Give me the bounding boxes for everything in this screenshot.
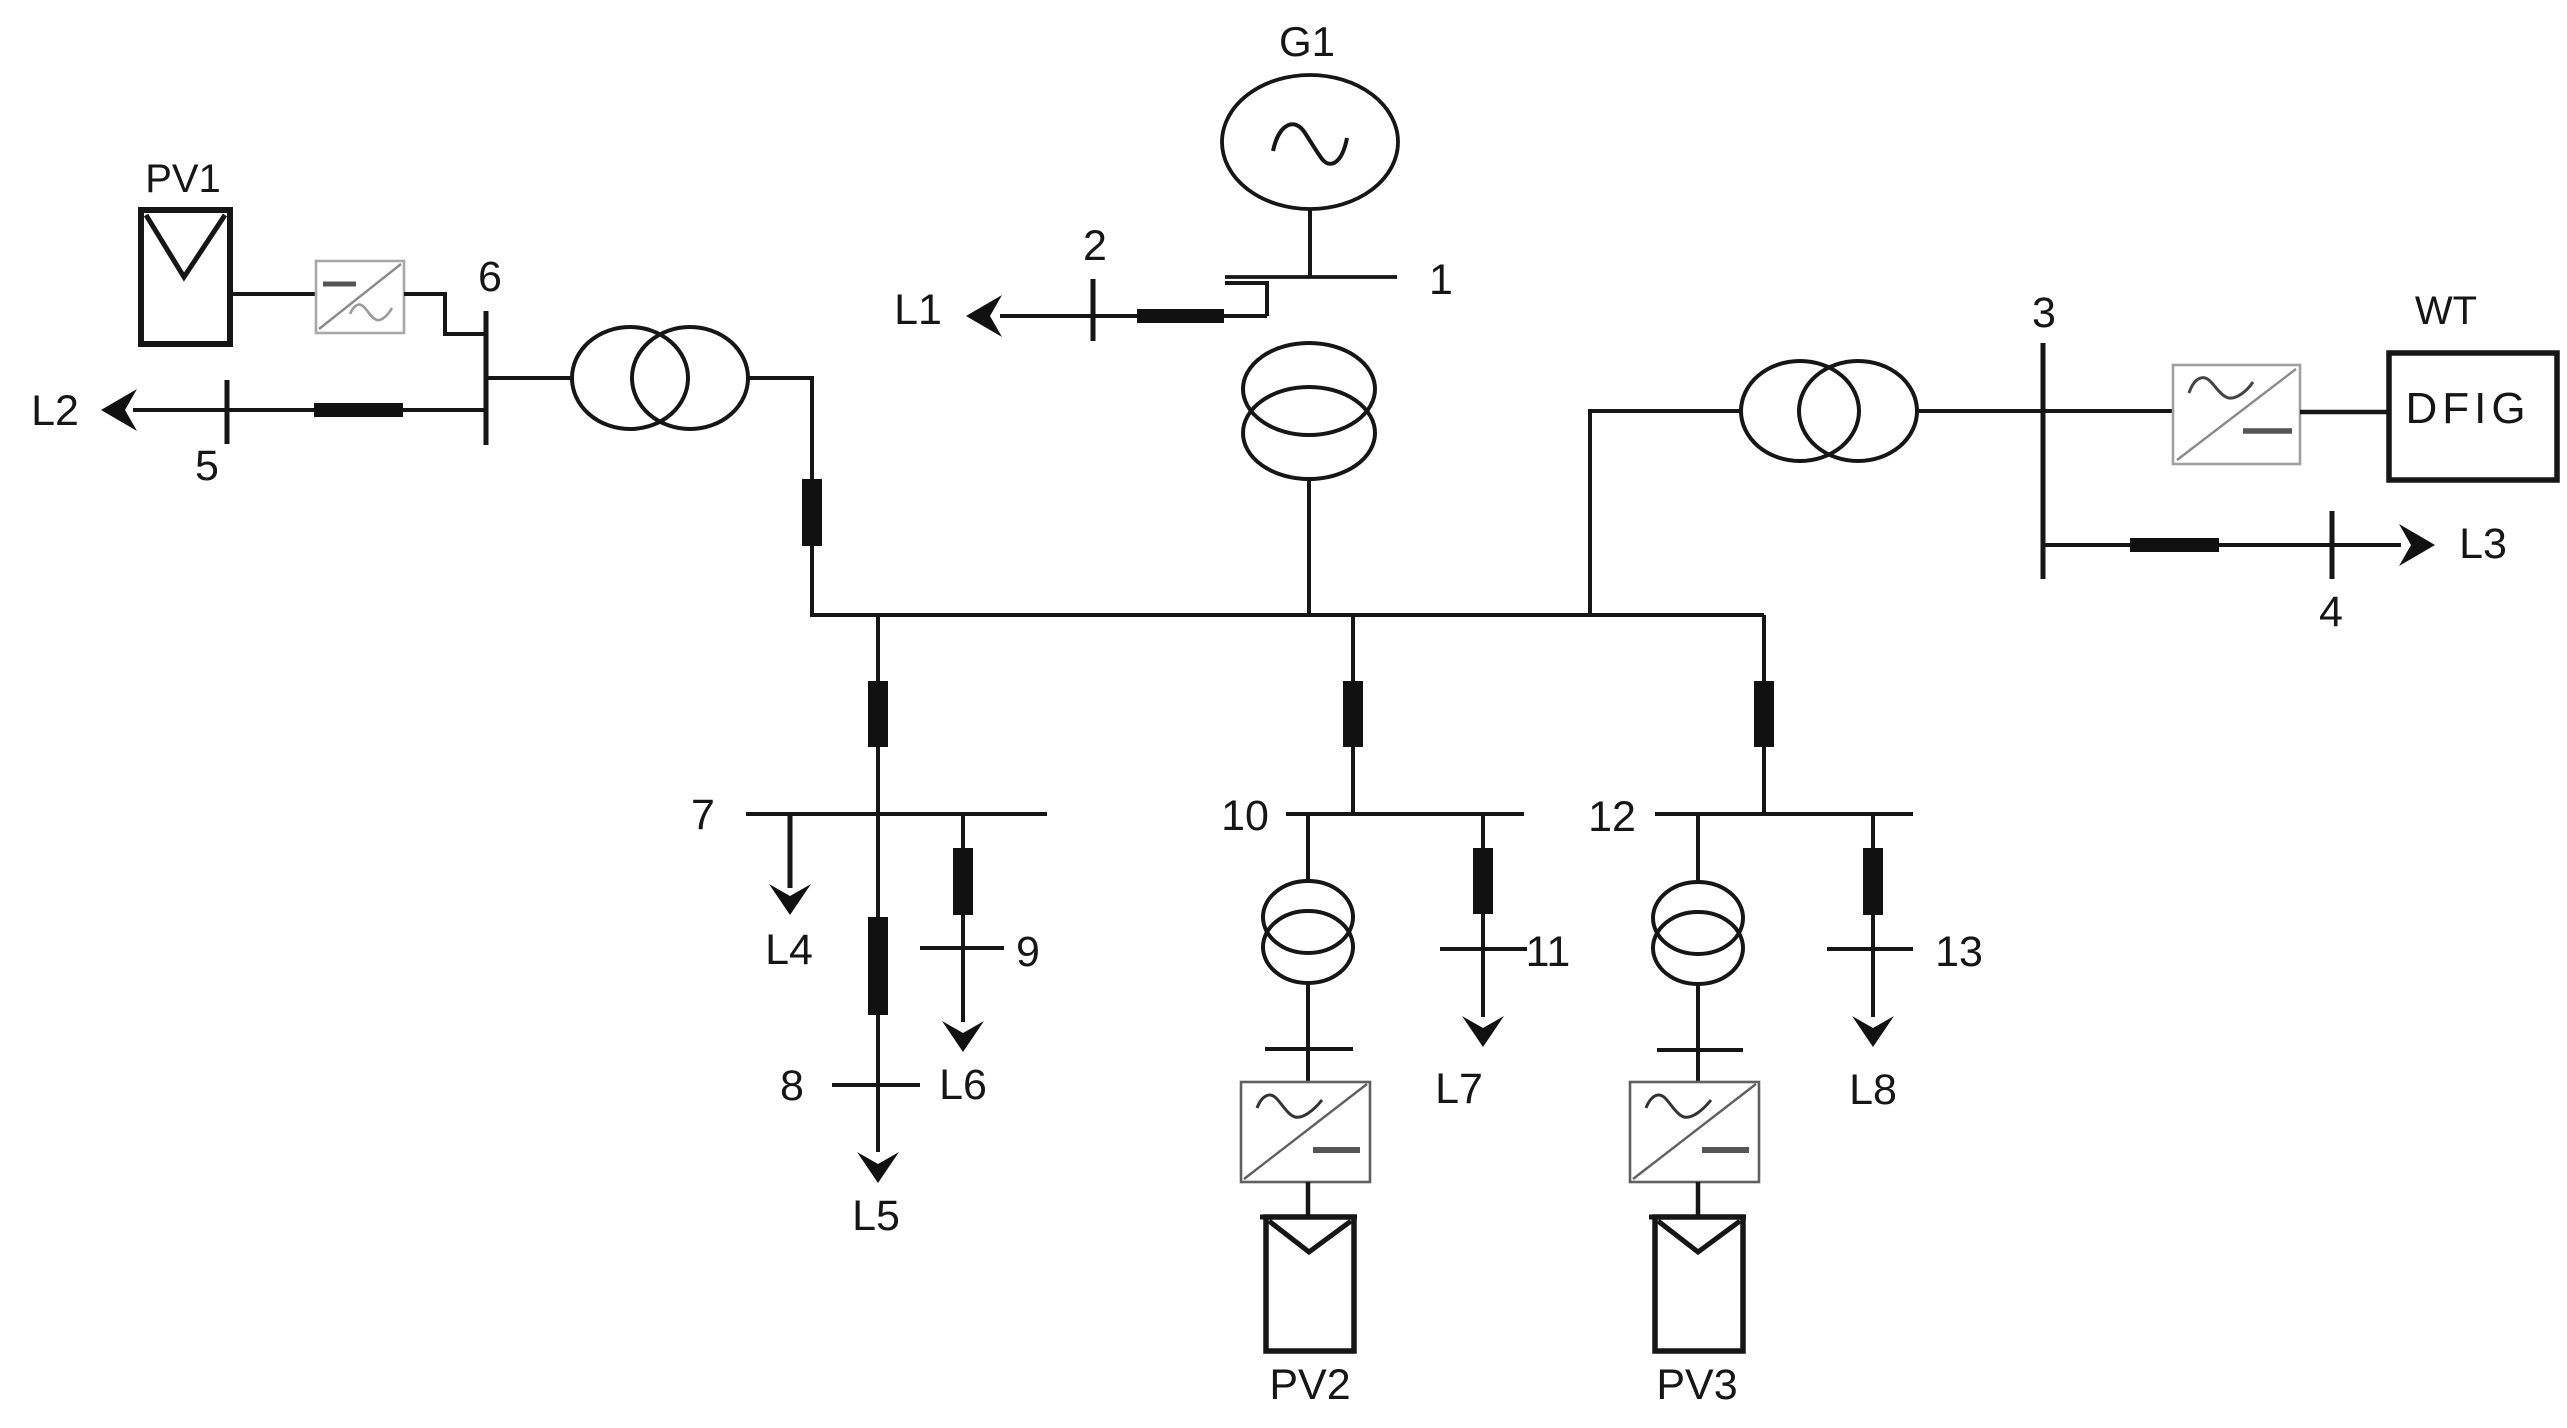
- line impedance on L1 feeder: [1137, 309, 1224, 323]
- transformer T2: [572, 327, 748, 429]
- load arrow L6: [942, 1021, 984, 1052]
- wire bus 7 to bus 9: [961, 814, 965, 1022]
- line impedance bus12 branch: [1754, 681, 1774, 747]
- svg-text:DFIG: DFIG: [2405, 384, 2530, 433]
- svg-text:7: 7: [691, 791, 715, 839]
- svg-text:L3: L3: [2459, 520, 2507, 568]
- svg-text:2: 2: [1083, 222, 1107, 270]
- svg-text:4: 4: [2319, 588, 2343, 636]
- wire PV1 to converter: [230, 292, 316, 296]
- wire L1 feeder: [1000, 314, 1267, 318]
- bus 12: [1655, 812, 1913, 816]
- wire T4 to converter PV2: [1306, 983, 1310, 1082]
- line impedance on L3 feeder: [2130, 538, 2219, 552]
- svg-text:L5: L5: [852, 1192, 900, 1240]
- bus 7: [746, 812, 1047, 816]
- converter PV1 (DC/AC): [316, 261, 404, 333]
- wire bus 6 to transformer T2: [486, 376, 573, 380]
- generator G1: [1222, 75, 1398, 209]
- line impedance T2 branch: [802, 479, 822, 546]
- PV1 panel: [141, 210, 230, 344]
- wire converter WT to DFIG: [2300, 410, 2389, 415]
- bus 5 tick: [225, 380, 230, 444]
- load arrow L1: [966, 295, 1002, 337]
- line impedance bus11 branch: [1473, 848, 1493, 914]
- svg-text:PV3: PV3: [1656, 1361, 1737, 1409]
- svg-text:5: 5: [195, 442, 219, 490]
- wire T3 to bus 3: [1917, 409, 2043, 413]
- wire bus 7 to bus 8: [876, 814, 880, 1152]
- svg-text:L4: L4: [765, 926, 813, 974]
- svg-text:L1: L1: [894, 286, 942, 334]
- load arrow L7: [1462, 1016, 1504, 1047]
- bus 3: [2041, 343, 2046, 579]
- wire bus 3 to converter WT: [2043, 409, 2173, 413]
- bus 10: [1286, 812, 1524, 816]
- load arrow L2: [101, 389, 137, 431]
- transformer T5: [1653, 882, 1743, 984]
- load arrow L5: [857, 1152, 899, 1183]
- wire converter PV2 to panel: [1306, 1182, 1311, 1217]
- bus 8 tick: [832, 1083, 920, 1087]
- wire converter PV3 to panel: [1696, 1182, 1701, 1217]
- svg-text:WT: WT: [2415, 289, 2477, 333]
- converter PV3 (AC/DC): [1630, 1082, 1759, 1182]
- bus 13 tick: [1827, 947, 1913, 951]
- wire main node to bus 12: [1762, 615, 1766, 814]
- bus 1: [1225, 275, 1397, 279]
- load arrow L3: [2399, 524, 2435, 566]
- transformer T3: [1741, 361, 1917, 461]
- line impedance bus7 branch: [868, 681, 888, 747]
- PV3 panel: [1649, 1217, 1746, 1351]
- bus 2 tick: [1091, 279, 1096, 341]
- svg-text:G1: G1: [1279, 18, 1335, 65]
- line impedance on L2 feeder: [314, 403, 403, 417]
- svg-text:L2: L2: [31, 387, 79, 435]
- line impedance bus10 branch: [1343, 681, 1363, 747]
- wire bus 10 to bus 11: [1481, 814, 1485, 1017]
- PV2 panel: [1260, 1217, 1357, 1351]
- line impedance bus13 branch: [1863, 848, 1883, 915]
- line impedance bus7-bus8: [868, 917, 888, 1015]
- load arrow L8: [1852, 1016, 1894, 1047]
- svg-text:12: 12: [1588, 793, 1636, 841]
- load arrow L4: [769, 884, 811, 915]
- svg-text:8: 8: [780, 1062, 804, 1110]
- line impedance bus9 branch: [953, 848, 973, 915]
- svg-text:3: 3: [2032, 289, 2056, 337]
- wire main node to bus 10: [1351, 615, 1355, 814]
- svg-text:L7: L7: [1435, 1065, 1483, 1113]
- main bus wire: [810, 613, 1764, 617]
- svg-text:L6: L6: [939, 1061, 987, 1109]
- wire bus 1 to L1 feeder (step): [1225, 283, 1267, 316]
- transformer T1 (G1 step-up): [1243, 343, 1375, 479]
- svg-text:L8: L8: [1849, 1066, 1897, 1114]
- svg-text:13: 13: [1935, 928, 1983, 976]
- bus 4 tick: [2330, 511, 2335, 579]
- bus 6: [484, 311, 489, 445]
- svg-text:PV1: PV1: [145, 157, 221, 201]
- transformer T4: [1263, 881, 1353, 983]
- svg-text:PV2: PV2: [1269, 1361, 1350, 1409]
- svg-text:9: 9: [1016, 928, 1040, 976]
- load feeder L4: [788, 814, 793, 888]
- converter PV2 (AC/DC): [1241, 1082, 1370, 1182]
- wire bus 10 to transformer T4: [1306, 814, 1310, 882]
- bus 9 tick: [920, 946, 1004, 950]
- wire L3 feeder: [2043, 543, 2401, 547]
- svg-text:10: 10: [1221, 792, 1269, 840]
- wire L2 feeder: [133, 408, 486, 412]
- wire bus 12 to bus 13: [1871, 814, 1875, 1017]
- wire main node to transformer T3: [1590, 411, 1741, 615]
- wire G1 to bus 1: [1308, 209, 1312, 277]
- wire bus 12 to transformer T5: [1696, 814, 1700, 883]
- svg-text:1: 1: [1429, 256, 1453, 304]
- converter WT (AC/DC): [2173, 365, 2300, 464]
- wire main node to bus 7: [876, 615, 880, 814]
- wire T2 to main node: [748, 378, 812, 615]
- svg-text:6: 6: [478, 253, 502, 301]
- DC link tick PV3: [1657, 1048, 1743, 1052]
- bus 11 tick: [1440, 947, 1527, 951]
- DFIG block: [2389, 353, 2557, 480]
- wire T1 to main node: [1307, 479, 1311, 615]
- wire T5 to converter PV3: [1696, 984, 1700, 1082]
- svg-text:11: 11: [1526, 928, 1571, 976]
- wire converter PV1 to bus 6 (step): [404, 294, 486, 334]
- DC link tick PV2: [1265, 1047, 1353, 1051]
